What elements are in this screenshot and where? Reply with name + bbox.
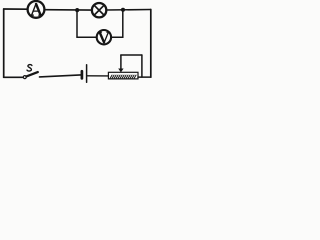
- voltmeter label V: [98, 32, 109, 42]
- lamp L1 circle: [92, 3, 106, 17]
- wire voltmeter branch left vertical: [76, 10, 78, 37]
- ammeter label A: [30, 4, 42, 15]
- rheostat R1 body: [108, 72, 138, 79]
- battery negative plate: [81, 71, 84, 78]
- background: [0, 0, 156, 87]
- ammeter A1 circle: [28, 1, 45, 18]
- rheostat slider arrowhead: [118, 69, 123, 73]
- wire right vertical: [150, 10, 152, 78]
- wire slider bracket horizontal: [121, 54, 142, 56]
- wire voltmeter branch left horizontal: [77, 36, 97, 38]
- junction node right (voltmeter tap): [121, 8, 125, 12]
- wire battery to rheostat: [88, 75, 109, 77]
- junction node left (voltmeter tap): [75, 8, 79, 12]
- wire bottom-left horizontal: [4, 76, 23, 78]
- wire ammeter to lamp: [45, 9, 92, 11]
- voltmeter V1 circle: [97, 30, 111, 44]
- wire lamp to top-right corner: [106, 9, 151, 12]
- switch S pivot contact: [23, 76, 26, 79]
- wire top-left horizontal: [4, 8, 28, 10]
- switch S blade: [26, 72, 37, 76]
- wire switch to battery: [40, 75, 81, 77]
- lamp L1 cross: [94, 5, 104, 15]
- wire slider arrow stem: [120, 55, 122, 69]
- wire voltmeter branch right horizontal: [111, 36, 123, 38]
- rheostat R1 winding hatch: [110, 75, 136, 78]
- switch label S: [27, 65, 32, 71]
- wire rheostat right terminal: [138, 76, 151, 78]
- wire slider bracket right vertical: [141, 55, 143, 77]
- wire voltmeter branch right vertical: [122, 10, 124, 37]
- wire left vertical: [3, 9, 5, 77]
- battery positive plate: [86, 65, 88, 83]
